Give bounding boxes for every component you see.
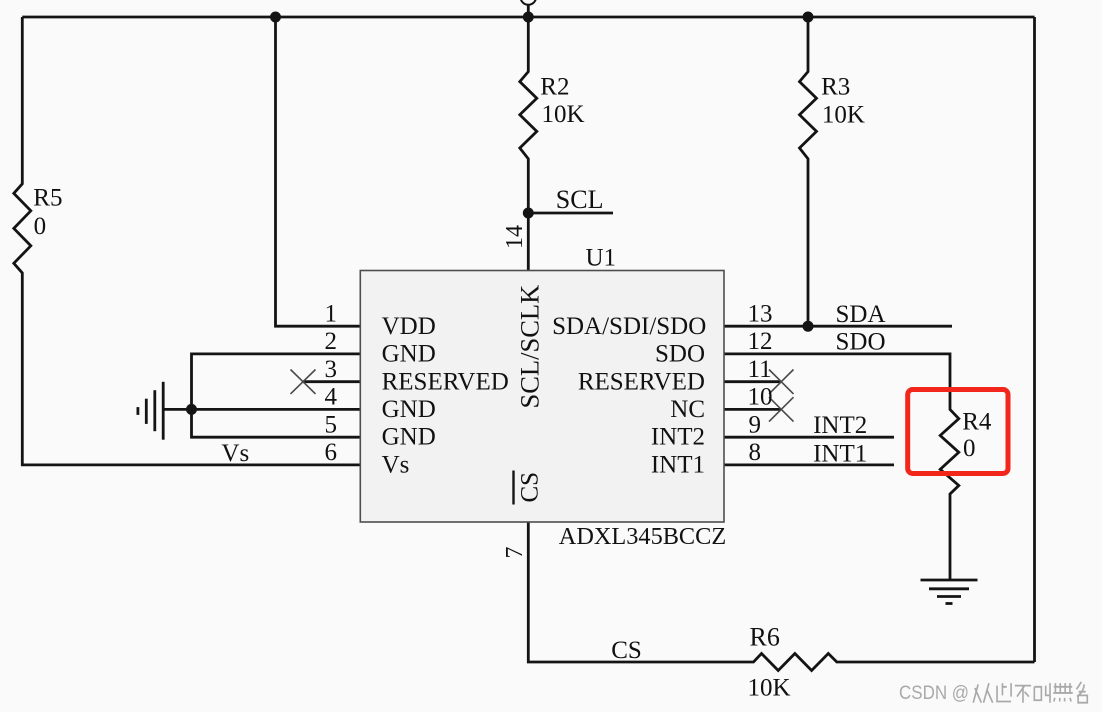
svg-text:10K: 10K bbox=[542, 101, 585, 128]
svg-text:U1: U1 bbox=[586, 244, 617, 271]
svg-text:SDA: SDA bbox=[836, 301, 886, 328]
svg-text:4: 4 bbox=[325, 384, 338, 411]
svg-text:11: 11 bbox=[748, 356, 772, 383]
svg-text:14: 14 bbox=[502, 225, 528, 249]
svg-text:INT2: INT2 bbox=[813, 412, 867, 439]
svg-text:RESERVED: RESERVED bbox=[382, 368, 509, 395]
svg-text:8: 8 bbox=[749, 439, 762, 466]
svg-text:SCL: SCL bbox=[556, 185, 604, 214]
svg-text:R5: R5 bbox=[33, 185, 62, 212]
svg-text:SDA/SDI/SDO: SDA/SDI/SDO bbox=[552, 313, 706, 340]
svg-text:6: 6 bbox=[325, 439, 338, 466]
svg-text:INT1: INT1 bbox=[651, 452, 705, 479]
svg-text:CS: CS bbox=[517, 472, 544, 503]
svg-text:R3: R3 bbox=[821, 73, 850, 100]
svg-text:2: 2 bbox=[325, 328, 338, 355]
svg-text:Vs: Vs bbox=[382, 452, 410, 479]
svg-text:10K: 10K bbox=[748, 675, 791, 702]
svg-text:0: 0 bbox=[963, 435, 976, 462]
svg-text:13: 13 bbox=[748, 300, 773, 327]
svg-text:12: 12 bbox=[748, 328, 773, 355]
svg-text:RESERVED: RESERVED bbox=[578, 368, 705, 395]
svg-text:7: 7 bbox=[502, 547, 528, 559]
svg-text:INT2: INT2 bbox=[651, 424, 705, 451]
svg-text:INT1: INT1 bbox=[813, 441, 867, 468]
svg-text:9: 9 bbox=[749, 411, 762, 438]
svg-text:GND: GND bbox=[382, 341, 436, 368]
svg-text:R2: R2 bbox=[540, 73, 569, 100]
svg-text:10K: 10K bbox=[822, 102, 865, 129]
svg-text:CSDN @: CSDN @ bbox=[899, 683, 969, 704]
svg-text:SDO: SDO bbox=[655, 341, 705, 368]
svg-text:ADXL345BCCZ: ADXL345BCCZ bbox=[559, 523, 726, 550]
svg-text:R4: R4 bbox=[962, 409, 992, 436]
svg-text:1: 1 bbox=[325, 300, 338, 327]
svg-text:CS: CS bbox=[611, 637, 642, 664]
svg-text:10: 10 bbox=[748, 384, 773, 411]
svg-text:VDD: VDD bbox=[382, 313, 436, 340]
svg-text:R6: R6 bbox=[750, 623, 780, 652]
svg-text:5: 5 bbox=[325, 411, 338, 438]
svg-text:GND: GND bbox=[382, 396, 436, 423]
svg-text:Vs: Vs bbox=[221, 440, 249, 467]
svg-text:SDO: SDO bbox=[836, 328, 886, 355]
svg-text:GND: GND bbox=[382, 424, 436, 451]
svg-text:SCL/SCLK: SCL/SCLK bbox=[515, 285, 545, 409]
svg-text:NC: NC bbox=[670, 396, 705, 423]
svg-text:3: 3 bbox=[325, 356, 338, 383]
svg-text:0: 0 bbox=[34, 213, 47, 240]
